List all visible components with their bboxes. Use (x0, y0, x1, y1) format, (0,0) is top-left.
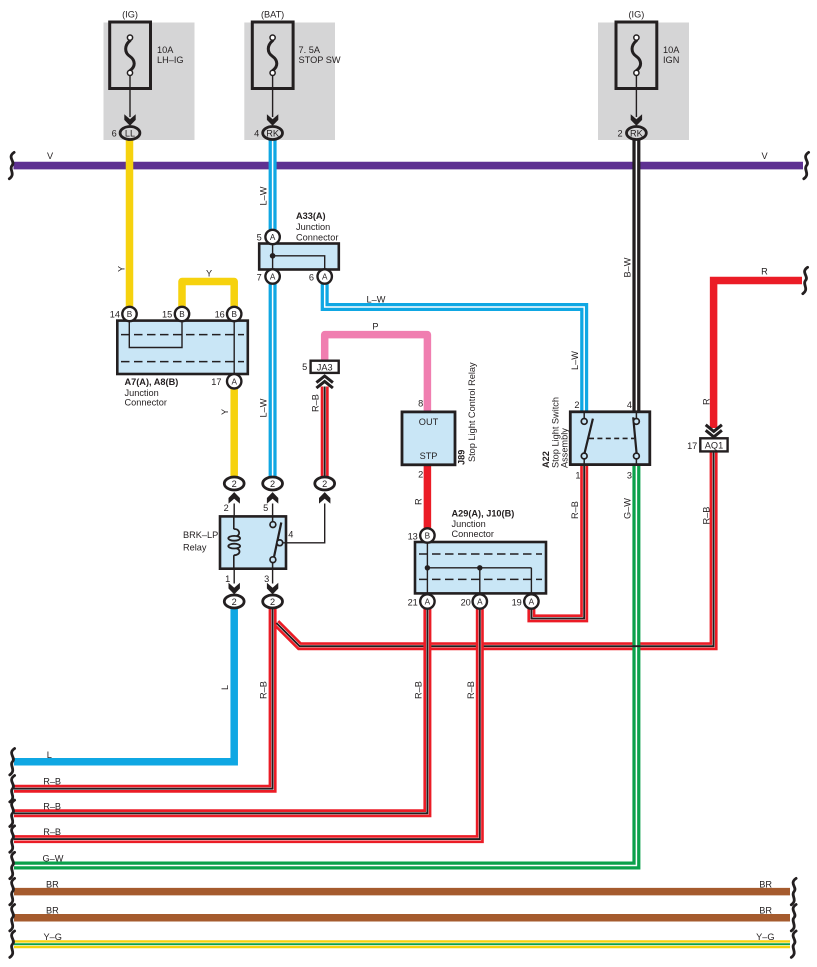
wire A33 internal pin5 to pin7 (272, 237, 274, 277)
svg-text:R–B: R–B (701, 507, 711, 525)
svg-text:(BAT): (BAT) (261, 10, 284, 20)
wire R-B JA3 arrow down to relay connector (321, 387, 329, 479)
connector oval 2 RK (617, 127, 646, 140)
svg-text:4: 4 (288, 529, 293, 539)
svg-text:Stop Light Control Relay: Stop Light Control Relay (467, 362, 477, 462)
svg-text:Y–G: Y–G (44, 932, 62, 942)
wire Y-G bottom (14, 940, 790, 948)
svg-text:2: 2 (270, 479, 275, 489)
label A33(A) Junction Connector (296, 211, 338, 242)
wire L-W A33 pin 7 down to relay connector (269, 277, 277, 479)
svg-text:AQ1: AQ1 (705, 441, 723, 451)
svg-text:L: L (220, 685, 230, 690)
svg-text:G–W: G–W (622, 498, 632, 519)
wire BRK-LP pin5 lead (272, 504, 274, 517)
svg-text:R–B: R–B (43, 801, 61, 811)
wire BR upper (14, 888, 790, 896)
wire Y loop A7 pin15 to pin16 (182, 282, 234, 315)
svg-text:17: 17 (211, 377, 221, 387)
svg-text:B: B (425, 532, 431, 541)
wire BR lower (14, 914, 790, 922)
wire BRK-LP pin4 to relay connector 2 (283, 504, 325, 543)
pin circle A29 13B (408, 528, 435, 542)
fuse F1 10A LH-IG (110, 10, 184, 89)
svg-text:B–W: B–W (622, 257, 632, 277)
svg-text:A22: A22 (541, 451, 551, 468)
svg-text:Connector: Connector (125, 398, 167, 408)
arrow into connector LL (124, 114, 135, 126)
svg-text:Y: Y (116, 266, 126, 272)
break right R (803, 267, 808, 293)
svg-text:R–B: R–B (259, 681, 269, 699)
svg-text:A: A (529, 598, 535, 607)
fuse F2 7.5A STOP SW (252, 10, 341, 89)
arrow into connector RK2 (631, 114, 642, 126)
svg-text:4: 4 (254, 129, 259, 139)
svg-text:3: 3 (627, 470, 632, 480)
svg-text:2: 2 (322, 479, 327, 489)
svg-text:(IG): (IG) (628, 10, 644, 20)
relay J89 box (402, 412, 455, 465)
svg-text:STP: STP (420, 451, 438, 461)
pin circle A29 20A (461, 594, 487, 608)
pin circle A7 14B (110, 307, 137, 321)
wire R-B A22 pin1 to A29 pin19 (531, 464, 584, 618)
svg-text:4: 4 (627, 400, 632, 410)
svg-text:A33(A): A33(A) (296, 211, 326, 221)
wire B-W fuse3 to A22 pin4 (632, 139, 640, 413)
svg-text:3: 3 (264, 574, 269, 584)
wire BRK-LP pin1 lead (233, 569, 235, 584)
svg-text:7. 5A: 7. 5A (299, 45, 321, 55)
svg-text:R: R (701, 398, 711, 405)
svg-text:Y: Y (220, 409, 230, 415)
svg-text:16: 16 (215, 310, 225, 320)
svg-text:14: 14 (110, 310, 120, 320)
wire fuse F1 lead (129, 76, 131, 117)
svg-text:R–B: R–B (43, 827, 61, 837)
svg-text:BR: BR (759, 880, 772, 890)
connector oval 4 RK (254, 127, 282, 140)
arrows down out of relay (229, 583, 240, 595)
wire V purple bus (14, 162, 804, 170)
connector JA3 box (311, 361, 339, 373)
svg-text:Y–G: Y–G (756, 932, 774, 942)
relay BRK-LP box (220, 516, 286, 568)
svg-text:Connector: Connector (296, 232, 338, 242)
svg-text:IGN: IGN (663, 55, 679, 65)
svg-text:Junction: Junction (452, 519, 486, 529)
svg-text:2: 2 (574, 400, 579, 410)
svg-text:STOP SW: STOP SW (299, 55, 341, 65)
svg-text:A: A (270, 233, 276, 242)
svg-text:6: 6 (112, 129, 117, 139)
svg-text:2: 2 (617, 129, 622, 139)
svg-text:L–W: L–W (367, 294, 386, 304)
svg-text:A: A (231, 377, 237, 386)
svg-text:V: V (762, 151, 769, 161)
gray block fuse 1 background (104, 23, 195, 141)
pin circle A29 19A (512, 594, 539, 608)
svg-text:Junction: Junction (125, 388, 159, 398)
svg-text:Y: Y (206, 269, 212, 279)
svg-text:R–B: R–B (43, 777, 61, 787)
wire P JA3 to J89 pin8 (325, 335, 428, 413)
junction connector A33(A) box (259, 244, 339, 270)
svg-text:LL: LL (125, 128, 135, 138)
svg-text:2: 2 (232, 479, 237, 489)
gray block fuse 3 background (598, 23, 689, 141)
svg-text:BRK–LP: BRK–LP (183, 530, 218, 540)
wire A33 internal to pin 6 (273, 256, 325, 271)
svg-text:J89: J89 (457, 450, 467, 465)
svg-text:RK: RK (630, 128, 644, 138)
label A29(A), J10(B) Junction Connector (452, 509, 515, 540)
wire R-B AQ1 down and across to BRK-LP pin3 branch (276, 452, 713, 647)
svg-text:BR: BR (759, 906, 772, 916)
breaks bottom left (10, 749, 15, 775)
svg-text:21: 21 (408, 597, 418, 607)
svg-text:A: A (425, 598, 431, 607)
svg-text:R–B: R–B (570, 501, 580, 519)
arrow into connector RK (267, 114, 278, 126)
wire Y A7 pin17 down to relay connector (230, 382, 238, 478)
svg-text:2: 2 (418, 470, 423, 480)
svg-text:A: A (270, 273, 276, 282)
svg-text:Connector: Connector (452, 529, 494, 539)
wire L-W A33 pin6 to A22 pin2 (325, 283, 585, 413)
arrow double chevron up JA3 (316, 376, 333, 388)
svg-text:15: 15 (162, 310, 172, 320)
wire R-B A29 pin21 to left edge (14, 602, 427, 813)
svg-text:G–W: G–W (43, 854, 64, 864)
svg-text:JA3: JA3 (317, 362, 333, 372)
wire fuse F3 lead (635, 76, 637, 117)
pin circle A7 15B (162, 307, 189, 321)
svg-text:2: 2 (232, 597, 237, 607)
connector oval 6 LL (112, 127, 140, 140)
junction connector A7(A) A8(B) box (117, 315, 248, 381)
svg-text:2: 2 (224, 503, 229, 513)
svg-text:5: 5 (257, 233, 262, 243)
svg-text:L: L (47, 750, 52, 760)
svg-text:20: 20 (461, 597, 471, 607)
svg-text:RK: RK (266, 128, 280, 138)
break left V (9, 152, 14, 178)
svg-text:LH–IG: LH–IG (157, 55, 184, 65)
relay connector ovals 2 bottom row (224, 595, 282, 608)
connector AQ1 box (700, 438, 727, 451)
fuse F3 10A IGN (616, 10, 680, 89)
break right V (804, 152, 809, 178)
svg-text:BR: BR (46, 880, 59, 890)
switch A22 box (570, 412, 650, 465)
svg-text:1: 1 (225, 574, 230, 584)
svg-text:Assembly: Assembly (560, 428, 570, 468)
svg-text:L–W: L–W (258, 398, 268, 417)
svg-text:Junction: Junction (296, 222, 330, 232)
wire R-B BRK-LP pin3 to left edge (14, 609, 273, 789)
pin circle A7 16B (215, 307, 242, 321)
pin circle A29 21A (408, 594, 435, 608)
svg-text:L–W: L–W (570, 351, 580, 370)
arrows up into relay connectors (229, 492, 240, 504)
svg-text:8: 8 (418, 399, 423, 409)
svg-text:A: A (477, 598, 483, 607)
svg-text:10A: 10A (663, 45, 680, 55)
svg-text:13: 13 (408, 532, 418, 542)
junction connector A29(A) J10(B) box (415, 536, 546, 601)
svg-text:L–W: L–W (258, 186, 268, 205)
relay connector ovals 2 top row (224, 477, 334, 490)
wire R J89 pin2 to A29 pin13 (424, 465, 432, 537)
gray block fuse 2 background (244, 23, 335, 141)
pin circle A7 17A (211, 374, 241, 388)
svg-text:Relay: Relay (183, 543, 207, 553)
svg-text:19: 19 (512, 597, 522, 607)
breaks bottom right (791, 878, 796, 904)
svg-text:5: 5 (263, 503, 268, 513)
svg-text:R: R (761, 267, 768, 277)
wire L-W fuse2 to A33 pin 5 (269, 139, 277, 237)
svg-text:A: A (322, 273, 328, 282)
label A7(A), A8(B) Junction Connector (125, 377, 179, 408)
svg-text:1: 1 (575, 470, 580, 480)
svg-text:B: B (231, 310, 237, 319)
wire R-B AQ1 black stripe (276, 452, 713, 647)
svg-text:(IG): (IG) (122, 10, 138, 20)
svg-text:R–B: R–B (466, 681, 476, 699)
svg-text:V: V (47, 151, 54, 161)
svg-text:R–B: R–B (413, 681, 423, 699)
node A33 junction dot (270, 253, 276, 259)
wire R right feed (714, 281, 802, 429)
wire Y fuse1 to A7 pin14 (126, 139, 134, 314)
wire G-W A22 pin3 to left edge (14, 464, 636, 866)
pin circle A33 5A (257, 230, 280, 244)
svg-text:A29(A), J10(B): A29(A), J10(B) (452, 509, 515, 519)
wire R-B A29 pin20 to left edge (14, 602, 480, 839)
wire BRK-LP pin2 lead (233, 504, 235, 517)
svg-text:2: 2 (270, 597, 275, 607)
svg-text:OUT: OUT (419, 417, 439, 427)
arrow double chevron down AQ1 (706, 425, 722, 437)
svg-text:R: R (413, 498, 423, 505)
svg-text:10A: 10A (157, 45, 174, 55)
svg-text:6: 6 (309, 273, 314, 283)
wire L BRK-LP pin1 to left edge (14, 609, 234, 762)
svg-text:BR: BR (46, 906, 59, 916)
svg-text:A7(A), A8(B): A7(A), A8(B) (125, 377, 179, 387)
svg-text:B: B (127, 310, 133, 319)
pin circle A33 7A (257, 269, 280, 283)
wire fuse F2 lead (272, 76, 274, 117)
svg-text:17: 17 (687, 441, 697, 451)
svg-text:R–B: R–B (311, 394, 321, 412)
wire BRK-LP pin3 lead (272, 569, 274, 584)
svg-text:7: 7 (257, 273, 262, 283)
svg-text:5: 5 (302, 362, 307, 372)
svg-text:B: B (179, 310, 185, 319)
pin circle A33 6A (309, 269, 332, 283)
svg-text:P: P (372, 322, 378, 332)
